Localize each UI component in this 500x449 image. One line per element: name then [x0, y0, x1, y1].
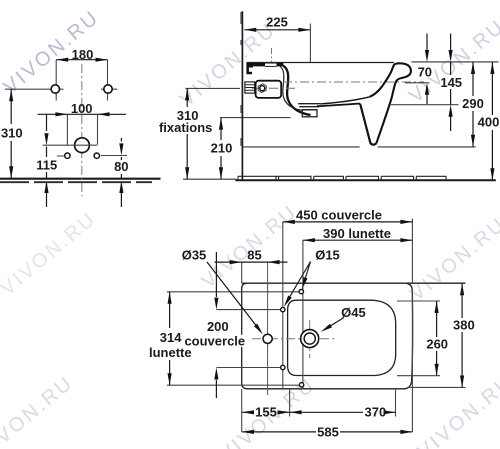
dim 225 — [244, 29, 310, 31]
dim 260 — [436, 301, 438, 376]
drain axis vertical — [267, 262, 269, 395]
dimension line 100 — [38, 113, 126, 115]
ground reference line — [183, 178, 236, 180]
leader Ø15 to couvercle hole — [286, 262, 310, 304]
drain hole big — [75, 138, 90, 153]
dim 290 — [472, 62, 474, 147]
dim 145 — [450, 34, 452, 132]
svg-text:260: 260 — [426, 336, 448, 351]
dim 585 — [242, 431, 412, 433]
svg-text:400: 400 — [478, 115, 500, 130]
top ext line for right dims — [412, 61, 499, 63]
bolt axis dash — [252, 87, 296, 89]
extension verticals 180 holes — [56, 60, 107, 101]
svg-text:180: 180 — [72, 47, 94, 62]
svg-text:225: 225 — [266, 14, 288, 29]
small fixing holes — [65, 153, 70, 158]
crosshair big hole — [43, 144, 97, 146]
inner bowl outline — [288, 300, 396, 375]
bowl bottom interior line — [320, 97, 370, 104]
extension line hole level y89 — [5, 88, 117, 90]
dim 314 lunette — [169, 292, 171, 385]
dim line 310 fixations — [186, 88, 188, 179]
svg-text:310: 310 — [1, 126, 23, 141]
ground line side — [235, 179, 495, 181]
bowl back wall rising into spout + hook + back edge descending as V right leg — [370, 63, 411, 143]
trap inner thin curve — [280, 66, 302, 110]
top mounting holes — [51, 85, 59, 93]
svg-text:585: 585 — [317, 424, 339, 439]
outer body outline — [242, 283, 413, 389]
dim 370 — [290, 411, 396, 413]
leader Ø35 — [207, 262, 261, 332]
leader Ø45 — [325, 318, 345, 330]
svg-text:80: 80 — [114, 159, 128, 174]
rim top thin line — [247, 62, 395, 64]
wall — [241, 11, 243, 180]
bottom-right ext 380 — [408, 386, 466, 388]
dimension 80 vertical — [120, 138, 122, 207]
crosshair small holes — [57, 155, 127, 158]
svg-text:155: 155 — [255, 405, 277, 420]
floor tiles row — [238, 176, 446, 180]
ext line fixation level — [185, 87, 240, 89]
svg-text:fixations: fixations — [159, 120, 212, 135]
svg-text:145: 145 — [440, 75, 462, 90]
rim cut black band + wall hook — [245, 63, 284, 74]
svg-text:70: 70 — [418, 65, 432, 80]
vertical ext couvercle hinge line — [282, 222, 284, 389]
svg-text:450 couvercle: 450 couvercle — [296, 208, 382, 223]
svg-text:370: 370 — [365, 405, 387, 420]
trap outer thick curve — [283, 66, 310, 115]
bowl bottom exterior line — [317, 104, 360, 107]
dim 380 — [461, 283, 463, 387]
extension verticals 100 — [67, 114, 97, 145]
ext below 155/370 — [290, 389, 396, 417]
rim slot axis dash — [271, 48, 273, 62]
ground line — [0, 178, 161, 180]
dim 70 — [426, 34, 428, 105]
svg-text:couvercle: couvercle — [184, 333, 245, 348]
ground hatch dashes — [0, 181, 152, 183]
svg-text:380: 380 — [453, 318, 475, 333]
V drain funnel left leg — [360, 104, 377, 145]
center axis (dash-dot) — [81, 64, 83, 196]
dim 450 couvercle — [283, 221, 413, 223]
wall anchor hatched block — [245, 82, 255, 93]
dim 85 — [215, 261, 288, 263]
inlet hole Ø45 — [301, 330, 319, 348]
fixation box — [256, 81, 282, 98]
dim 390 lunette — [303, 239, 413, 241]
couvercle hinge holes Ø15 — [281, 307, 285, 311]
svg-text:210: 210 — [211, 141, 233, 156]
ext lines 314 lunette — [167, 292, 299, 385]
vertical ext left edge above/below — [241, 262, 243, 432]
vertical ext right 450/390/585 — [411, 219, 413, 432]
svg-text:390 lunette: 390 lunette — [323, 226, 391, 241]
ext line 70 level — [405, 82, 430, 84]
body bottom line y147 — [242, 146, 475, 148]
svg-text:115: 115 — [36, 158, 57, 173]
lunette hinge holes Ø15 — [299, 289, 303, 293]
leader Ø15 to lunette hole — [303, 262, 310, 286]
dim line 210 — [220, 118, 222, 180]
trap seal steps — [298, 104, 320, 110]
outer body top edge + 380 ext — [242, 282, 466, 284]
dim 200 couvercle — [215, 252, 217, 398]
svg-text:200: 200 — [207, 319, 229, 334]
svg-text:Ø35: Ø35 — [182, 248, 207, 263]
svg-text:Ø45: Ø45 — [341, 305, 366, 320]
dim 155 — [242, 411, 290, 413]
inlet axis dash-dot — [283, 81, 424, 83]
vertical ext lunette hinge line — [302, 240, 304, 388]
drain hole Ø35 — [263, 334, 272, 343]
ext lines 200 couvercle — [216, 310, 280, 368]
dimension line 180 — [56, 59, 107, 61]
dimension line 310 left — [10, 89, 12, 178]
svg-text:100: 100 — [71, 101, 93, 116]
Ø45 axis vertical — [309, 320, 311, 358]
dim 400 — [491, 62, 493, 180]
bolt — [260, 86, 265, 91]
svg-text:290: 290 — [462, 96, 484, 111]
horizontal center axis — [252, 338, 335, 340]
ext line 145 level — [391, 104, 459, 106]
svg-text:85: 85 — [247, 247, 261, 262]
ext line 210 level — [220, 117, 291, 119]
dimension 115 vertical — [46, 114, 48, 207]
svg-text:314: 314 — [160, 330, 182, 345]
svg-text:Ø15: Ø15 — [315, 247, 340, 262]
